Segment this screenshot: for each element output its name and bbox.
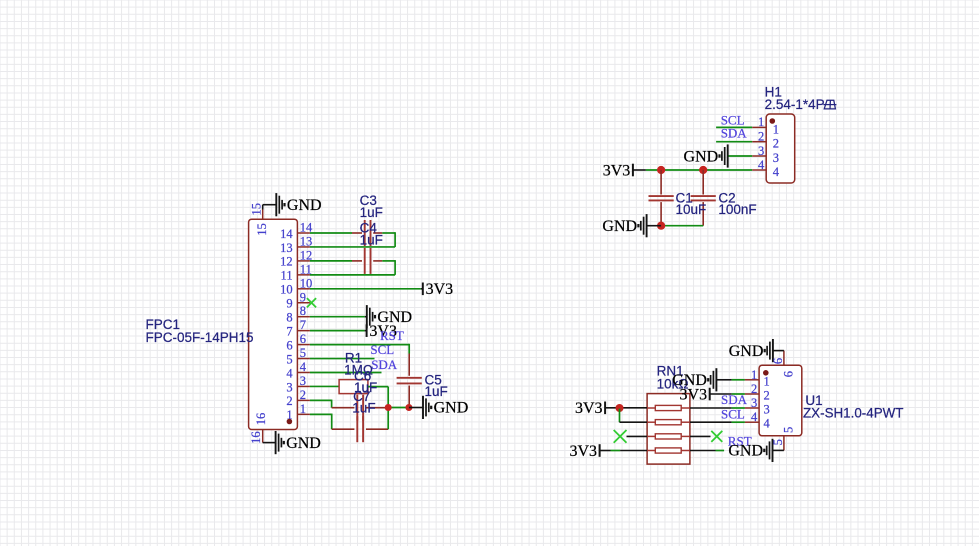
svg-text:3V3: 3V3 bbox=[426, 281, 454, 298]
svg-text:6: 6 bbox=[286, 338, 292, 352]
svg-text:6: 6 bbox=[771, 358, 785, 364]
svg-text:GND: GND bbox=[287, 197, 322, 214]
svg-text:GND: GND bbox=[602, 218, 637, 235]
svg-text:1uF: 1uF bbox=[360, 205, 383, 220]
svg-text:RST: RST bbox=[380, 328, 404, 343]
svg-text:5: 5 bbox=[782, 427, 796, 433]
svg-text:2: 2 bbox=[773, 137, 779, 151]
svg-text:3: 3 bbox=[764, 403, 770, 417]
svg-text:4: 4 bbox=[764, 417, 771, 431]
svg-text:GND: GND bbox=[434, 400, 469, 417]
svg-text:SCL: SCL bbox=[370, 342, 394, 357]
svg-text:4: 4 bbox=[300, 360, 307, 374]
svg-text:12: 12 bbox=[280, 255, 293, 269]
svg-text:2: 2 bbox=[751, 382, 757, 396]
svg-text:3: 3 bbox=[300, 374, 306, 388]
svg-text:5: 5 bbox=[300, 346, 306, 360]
svg-text:11: 11 bbox=[281, 269, 293, 283]
svg-text:5: 5 bbox=[286, 352, 292, 366]
svg-text:1: 1 bbox=[758, 115, 764, 129]
svg-text:14: 14 bbox=[280, 227, 293, 241]
svg-text:3: 3 bbox=[286, 380, 292, 394]
svg-text:13: 13 bbox=[280, 241, 293, 255]
svg-text:1: 1 bbox=[764, 374, 770, 388]
svg-text:3: 3 bbox=[773, 151, 779, 165]
svg-text:1uF: 1uF bbox=[360, 233, 383, 248]
svg-text:6: 6 bbox=[782, 371, 796, 377]
svg-text:4: 4 bbox=[286, 366, 293, 380]
svg-text:ZX-SH1.0-4PWT: ZX-SH1.0-4PWT bbox=[803, 406, 903, 421]
svg-text:9: 9 bbox=[286, 297, 292, 311]
svg-text:10: 10 bbox=[280, 283, 293, 297]
svg-text:GND: GND bbox=[684, 148, 719, 165]
svg-text:4: 4 bbox=[751, 410, 758, 424]
svg-text:SDA: SDA bbox=[721, 126, 748, 141]
svg-text:1: 1 bbox=[300, 402, 306, 416]
svg-text:2: 2 bbox=[286, 394, 292, 408]
svg-text:3: 3 bbox=[751, 396, 757, 410]
svg-text:8: 8 bbox=[300, 304, 306, 318]
svg-text:1uF: 1uF bbox=[425, 384, 448, 399]
svg-text:1: 1 bbox=[773, 122, 779, 136]
svg-text:15: 15 bbox=[255, 223, 269, 236]
svg-text:3: 3 bbox=[758, 144, 764, 158]
svg-text:1: 1 bbox=[751, 368, 757, 382]
svg-text:7: 7 bbox=[286, 324, 292, 338]
svg-text:6: 6 bbox=[300, 332, 306, 346]
svg-text:4: 4 bbox=[773, 165, 780, 179]
svg-text:SCL: SCL bbox=[721, 406, 745, 421]
svg-text:10uF: 10uF bbox=[676, 202, 707, 217]
svg-text:4: 4 bbox=[758, 158, 765, 172]
svg-text:2: 2 bbox=[764, 389, 770, 403]
svg-text:8: 8 bbox=[286, 311, 292, 325]
svg-text:3V3: 3V3 bbox=[680, 386, 708, 403]
svg-text:3V3: 3V3 bbox=[603, 162, 631, 179]
svg-text:SDA: SDA bbox=[721, 392, 748, 407]
svg-text:15: 15 bbox=[249, 203, 263, 216]
svg-text:100nF: 100nF bbox=[718, 202, 756, 217]
svg-text:2: 2 bbox=[758, 130, 764, 144]
svg-text:GND: GND bbox=[729, 343, 764, 360]
svg-text:GND: GND bbox=[286, 435, 321, 452]
svg-text:SDA: SDA bbox=[371, 357, 398, 372]
svg-text:3V3: 3V3 bbox=[569, 443, 597, 460]
svg-text:9: 9 bbox=[300, 290, 306, 304]
svg-text:5: 5 bbox=[771, 439, 785, 445]
svg-text:3V3: 3V3 bbox=[575, 400, 603, 417]
svg-text:16: 16 bbox=[254, 413, 268, 426]
svg-text:7: 7 bbox=[300, 318, 306, 332]
svg-text:GND: GND bbox=[728, 443, 763, 460]
svg-text:2: 2 bbox=[300, 388, 306, 402]
svg-text:16: 16 bbox=[249, 431, 263, 444]
svg-text:FPC-05F-14PH15: FPC-05F-14PH15 bbox=[146, 330, 254, 345]
svg-text:2.54-1*4P: 2.54-1*4P bbox=[765, 97, 825, 112]
svg-text:1uF: 1uF bbox=[352, 401, 375, 416]
